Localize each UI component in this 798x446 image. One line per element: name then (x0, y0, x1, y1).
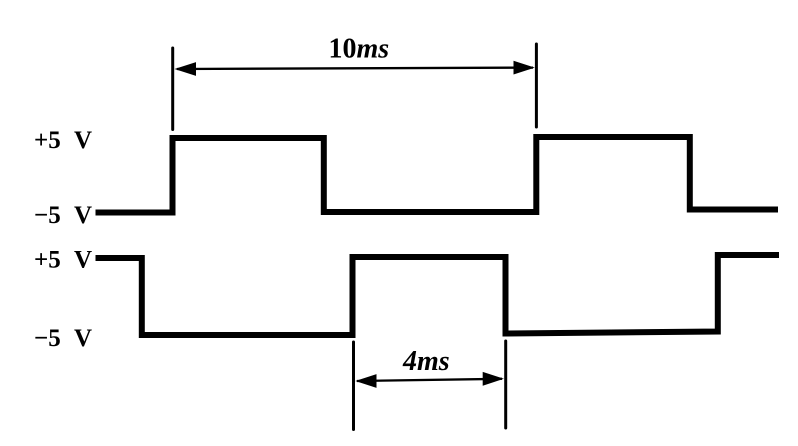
extension tick left of 4ms dimension (352, 342, 355, 430)
arrowhead left 4ms (355, 374, 376, 388)
extension tick right of 4ms dimension (504, 341, 507, 428)
waveform 2 (bottom square wave) (96, 255, 780, 335)
svg-text:+5 V: +5 V (34, 247, 92, 274)
dimension arrow line 4ms (357, 379, 502, 381)
svg-text:10ms: 10ms (329, 34, 390, 65)
extension tick right of 10ms dimension (535, 44, 538, 127)
extension tick left of 10ms dimension (171, 48, 174, 130)
arrowhead right 10ms (514, 61, 535, 75)
dimension arrow line 10ms (177, 68, 533, 69)
arrowhead left 10ms (175, 62, 197, 76)
svg-text:+5 V: +5 V (34, 127, 92, 154)
waveform 1 (top square wave) (96, 137, 779, 213)
svg-text:4ms: 4ms (402, 346, 450, 377)
svg-text:−5 V: −5 V (34, 325, 92, 352)
svg-text:−5 V: −5 V (34, 202, 92, 229)
arrowhead right 4ms (483, 372, 504, 386)
